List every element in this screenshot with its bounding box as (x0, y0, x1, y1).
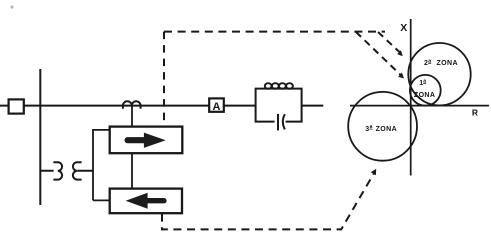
breaker square (left) (9, 99, 24, 113)
zone 1 mho circle (410, 75, 441, 106)
svg-text:ZONA: ZONA (437, 60, 458, 67)
wire between relay boxes (131, 153, 133, 188)
dashed arrow to zone 2 (378, 32, 400, 52)
busbar (39, 69, 41, 205)
dashed VT tap to zone 3 (162, 173, 374, 229)
arrow reverse (left) (147, 198, 164, 203)
X axis (410, 19, 412, 176)
zone 2 mho circle (408, 43, 470, 105)
scan speck (10, 5, 13, 8)
voltage transformer secondary winding (73, 162, 93, 179)
svg-text:A: A (213, 101, 221, 113)
svg-text:ZONA: ZONA (414, 92, 435, 99)
svg-text:R: R (472, 108, 478, 118)
voltage transformer primary winding (40, 162, 62, 179)
zone 3 mho circle (348, 92, 417, 161)
arrow forward (right) (128, 137, 147, 143)
svg-text:X: X (400, 22, 407, 34)
label zone 2 (424, 58, 458, 67)
dashed arrow to zone 1 (356, 32, 400, 75)
wire CT to relay box (131, 106, 133, 127)
line trap inductor coils (265, 83, 293, 89)
relay box reverse (bottom) (110, 189, 182, 214)
box A (transducer) (209, 98, 224, 111)
relay box forward (top) (110, 127, 183, 154)
line trap capacitor (277, 114, 279, 130)
wire VT to relay boxes (93, 130, 110, 201)
dashed CT tap to zone plot (163, 32, 165, 126)
label zone 3 (365, 124, 397, 133)
wire main transmission line (0, 105, 323, 107)
R axis (350, 105, 489, 107)
CT (current transformer) (123, 101, 141, 109)
label zone 1 (414, 78, 435, 99)
line trap outline (256, 89, 302, 122)
svg-text:ZONA: ZONA (376, 126, 397, 133)
